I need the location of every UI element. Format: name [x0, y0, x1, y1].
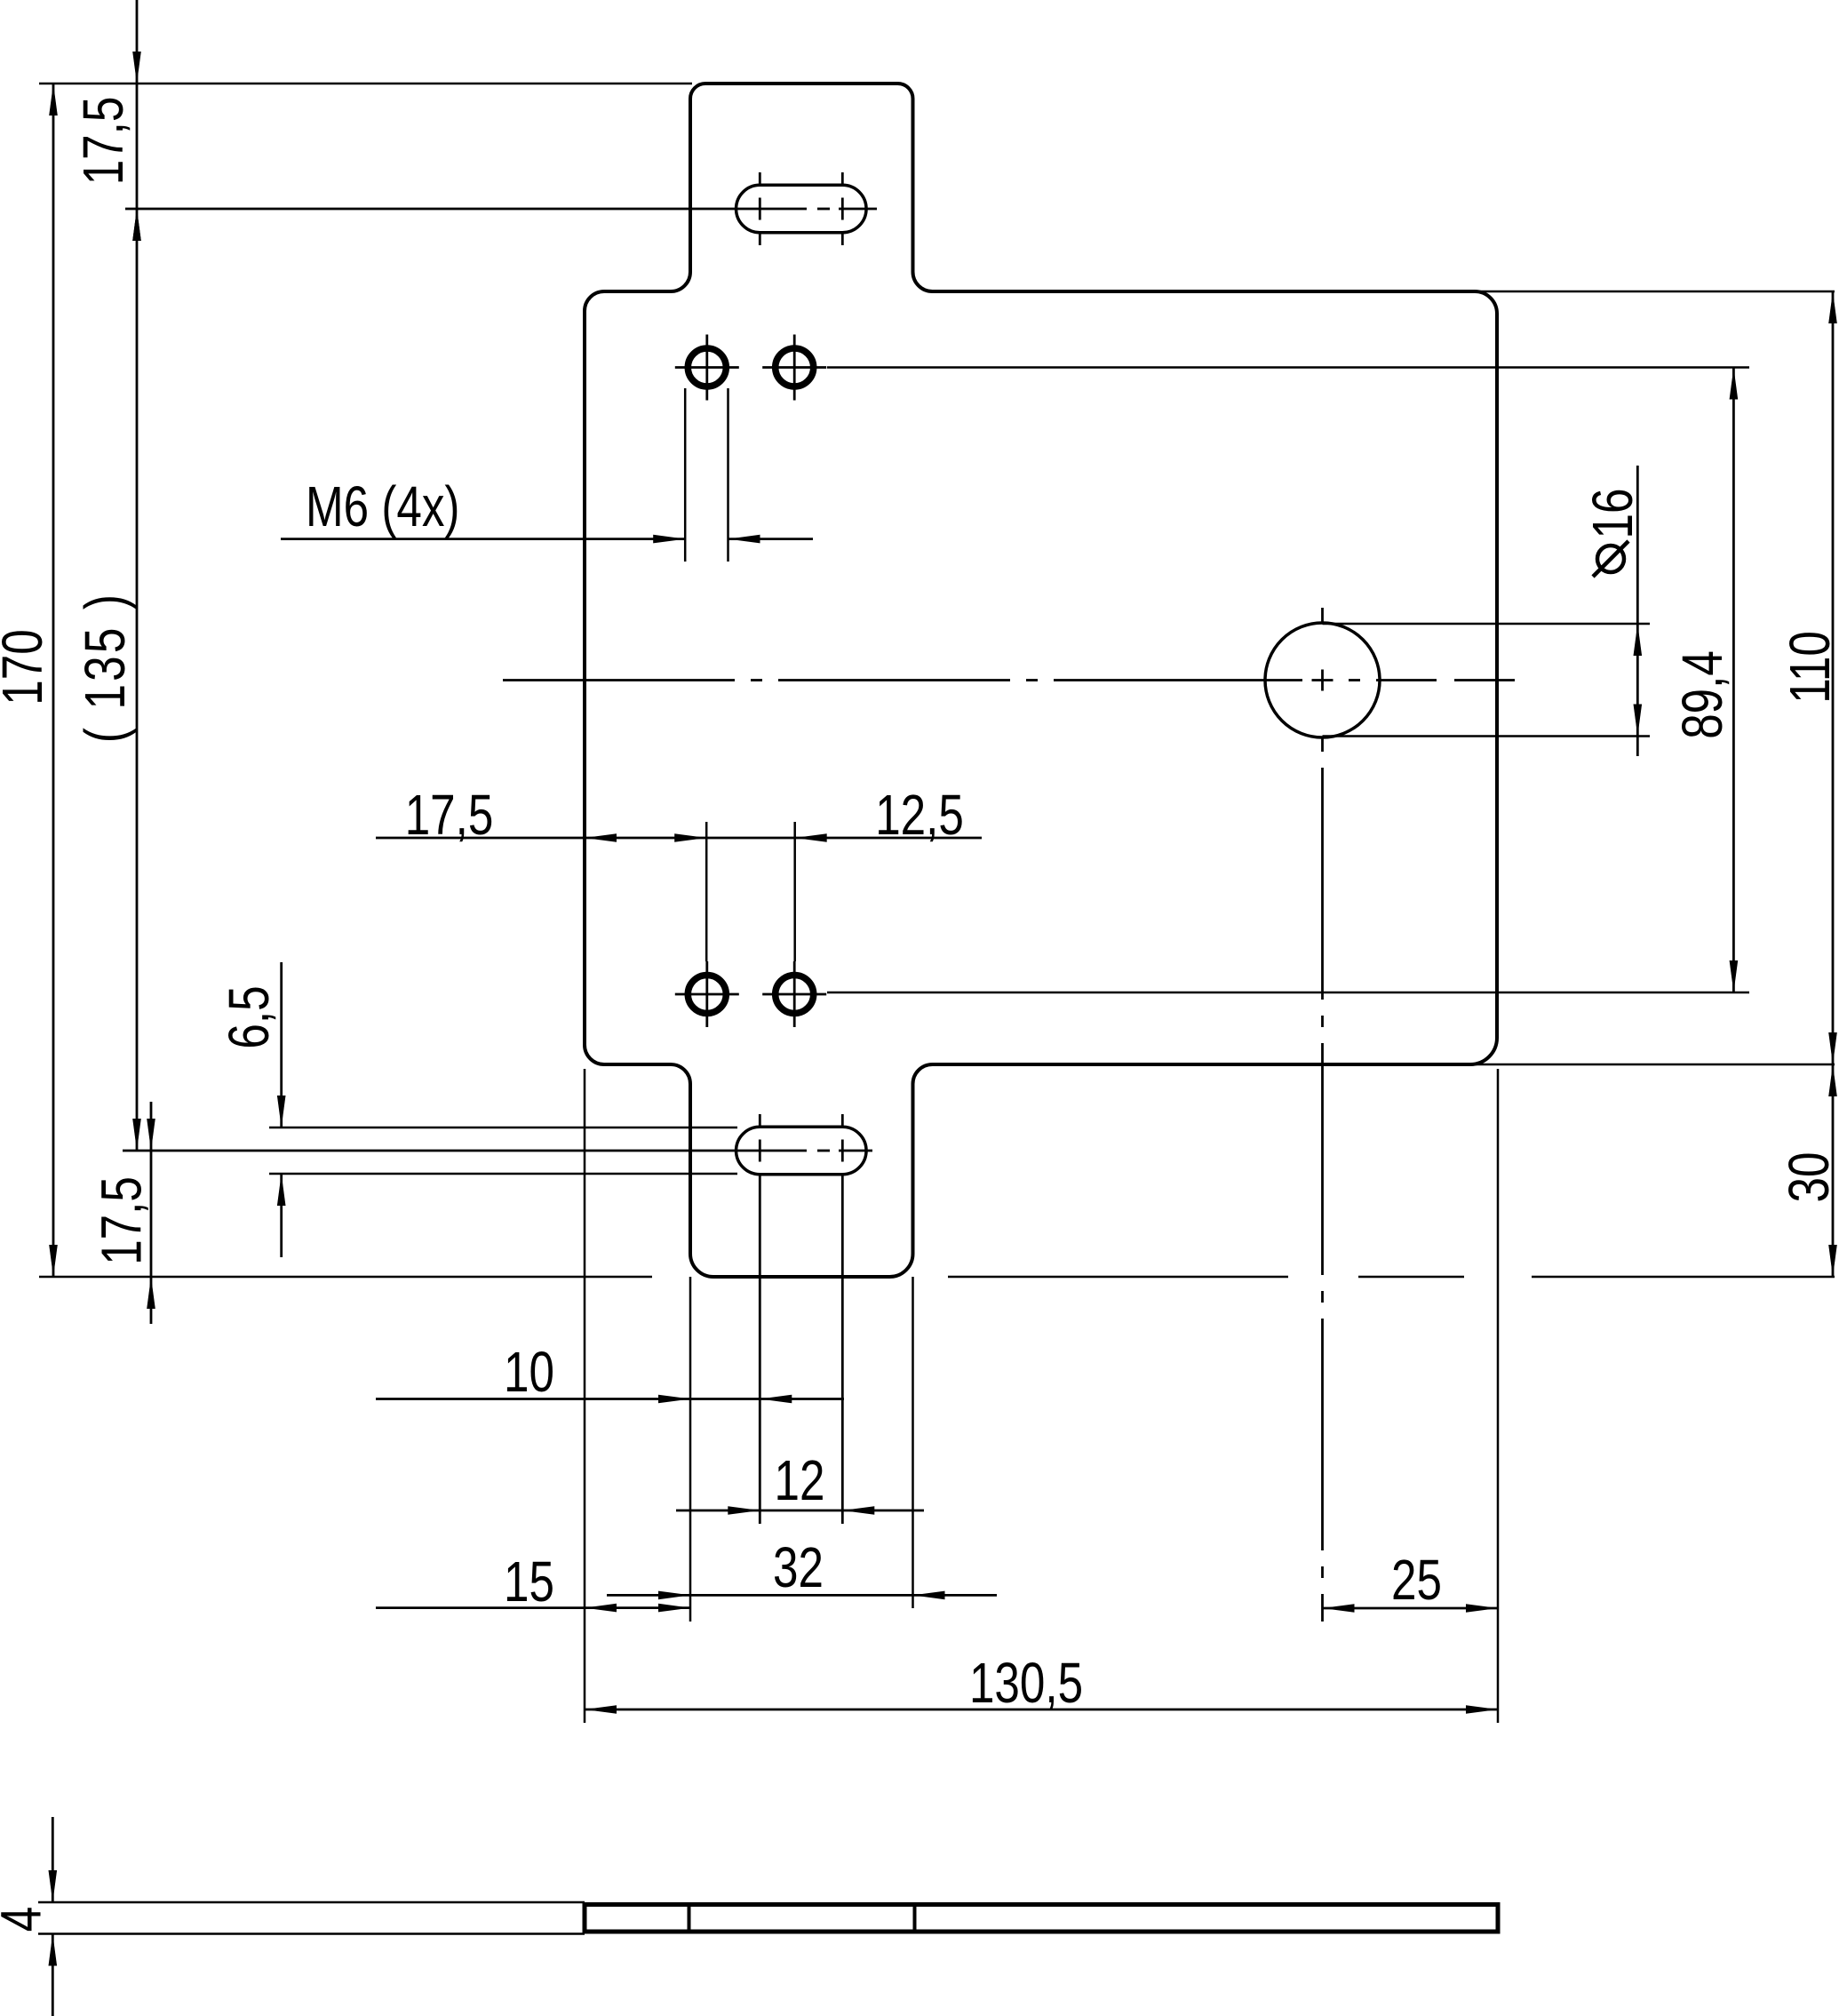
dim 17,5/12,5 line	[376, 837, 982, 840]
svg-text:30: 30	[1779, 1152, 1842, 1203]
svg-text:15: 15	[504, 1551, 554, 1614]
dim 110 text	[1779, 631, 1843, 704]
circle vertical centerline	[1321, 608, 1324, 1622]
dim 12 arrows	[728, 1506, 874, 1515]
dim M6 arrows	[653, 535, 760, 544]
dim 12 text	[775, 1450, 825, 1513]
dim 170 text	[0, 629, 54, 705]
dim 30 text	[1779, 1152, 1842, 1203]
ext lines slot width 6,5	[269, 1128, 737, 1174]
ext line bottom holes row	[827, 992, 1749, 994]
dim 110 arrows	[1828, 291, 1837, 1064]
dim 89,4 text	[1672, 650, 1735, 739]
svg-text:16: 16	[1582, 489, 1645, 539]
dim 17,5 top line	[136, 0, 139, 249]
svg-text:6,5: 6,5	[219, 985, 282, 1048]
dim 17,5 bottom arrows	[147, 1119, 155, 1309]
dim 15 line	[376, 1606, 690, 1609]
dim 130,5 arrows	[585, 1705, 1498, 1714]
slot top horizontal centerline / extension	[125, 208, 877, 211]
svg-text:17,5: 17,5	[91, 1176, 154, 1265]
dim 12,5 text	[875, 785, 964, 848]
ext lines d16	[1323, 624, 1651, 737]
dim 130,5 line	[585, 1709, 1498, 1711]
svg-text:89,4: 89,4	[1672, 650, 1735, 739]
dim 25 text	[1391, 1550, 1442, 1613]
svg-text:130,5: 130,5	[969, 1653, 1083, 1716]
dim 10 line	[376, 1398, 844, 1400]
dim 130,5 text	[969, 1653, 1083, 1716]
dim 4 text	[0, 1907, 53, 1932]
dim 170 arrows	[49, 84, 58, 1277]
slotted hole bottom	[736, 1127, 867, 1175]
dim 6,5 line	[280, 962, 283, 1257]
svg-text:4: 4	[0, 1907, 53, 1932]
svg-text:32: 32	[773, 1537, 824, 1600]
M6 tapped hole 1	[675, 335, 739, 401]
dim 25 line	[1323, 1607, 1499, 1610]
dim 32 line	[607, 1594, 997, 1597]
dim 12 line	[676, 1510, 924, 1512]
dim 170 line	[52, 84, 55, 1277]
ext line tab left down	[689, 1277, 692, 1622]
side view plate body	[585, 1905, 1498, 1932]
svg-text:( 135 ): ( 135 )	[75, 592, 138, 743]
ext line tab right down	[912, 1277, 914, 1608]
dim 10 arrows	[658, 1395, 792, 1404]
dim 17,5 bottom line	[150, 1102, 153, 1324]
main horizontal centerline	[503, 679, 1515, 681]
dim (135) text	[75, 592, 138, 743]
ext line top edge right	[1469, 291, 1835, 293]
dim 4 arrows	[49, 1870, 58, 1966]
dim 10 text	[504, 1342, 554, 1405]
svg-text:17,5: 17,5	[405, 785, 494, 848]
slot top centerline marks	[760, 172, 842, 245]
dim 6,5 text	[219, 985, 282, 1048]
dim 30 arrows	[1828, 1064, 1837, 1277]
svg-text:25: 25	[1391, 1550, 1442, 1613]
dim d16 text	[1582, 489, 1645, 577]
svg-text:M6 (4x): M6 (4x)	[306, 476, 459, 539]
dim M6 line	[281, 538, 813, 540]
ext line bottom edge right of tab	[948, 1276, 1835, 1279]
dim 17,5 mid arrows	[585, 833, 706, 842]
side view tab division lines	[689, 1904, 915, 1932]
slotted hole top	[736, 185, 867, 233]
dim 6,5 arrows	[277, 1096, 286, 1206]
M6 tapped hole 3	[675, 961, 739, 1027]
slot bottom centerline marks + extensions down	[760, 1114, 842, 1524]
dim 12,5 arrow	[795, 833, 827, 842]
svg-text:170: 170	[0, 629, 54, 705]
ext line top holes row	[827, 366, 1749, 369]
dim 110 line	[1832, 291, 1835, 1064]
ext lines M6	[685, 388, 728, 562]
dim (135) line	[136, 249, 139, 1151]
dim 4 line	[52, 1817, 54, 2016]
extension line top edge left	[39, 83, 692, 85]
ext line right edge down	[1497, 1069, 1500, 1723]
dim 17,5 mid text	[405, 785, 494, 848]
M6 tapped hole 2	[762, 335, 826, 401]
svg-text:10: 10	[504, 1342, 554, 1405]
dim 89,4 arrows	[1730, 368, 1739, 993]
plate outline (front view)	[585, 84, 1497, 1277]
dim d16 line	[1636, 466, 1639, 756]
svg-text:12,5: 12,5	[875, 785, 964, 848]
svg-text:17,5: 17,5	[73, 97, 136, 186]
ext lines holes vertical	[706, 822, 795, 961]
extension line bottom edge left	[39, 1276, 652, 1279]
dim 89,4 line	[1732, 368, 1735, 993]
dim (135) arrows	[132, 209, 141, 1151]
side view extension lines	[38, 1902, 585, 1934]
hole diameter 16	[1265, 623, 1380, 737]
dim 17,5 top text	[73, 97, 136, 186]
dim d16 arrows	[1634, 624, 1643, 737]
dim 15 arrows	[585, 1604, 690, 1613]
dim 32 text	[773, 1537, 824, 1600]
dim 32 arrows	[658, 1591, 945, 1600]
dim 15 text	[504, 1551, 554, 1614]
slot bottom horizontal centerline / extension	[123, 1150, 872, 1152]
dim 30 line	[1832, 1064, 1835, 1277]
dim 17,5 bottom text	[91, 1176, 154, 1265]
svg-text:12: 12	[775, 1450, 825, 1513]
dim 25 arrows	[1323, 1604, 1499, 1613]
dim 17,5 top arrows	[132, 52, 141, 241]
ext line left edge down	[584, 1069, 586, 1723]
dim M6 text	[306, 476, 459, 539]
M6 tapped hole 4	[762, 961, 826, 1027]
ext line bottom edge right	[1464, 1064, 1835, 1066]
svg-text:110: 110	[1779, 631, 1843, 704]
